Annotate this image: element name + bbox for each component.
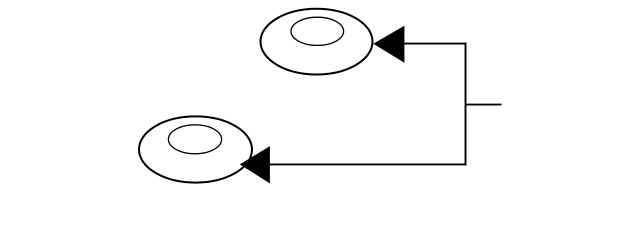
bracket vertical line — [465, 43, 467, 166]
washer 1 (top) inner ellipse — [291, 17, 344, 45]
leader line to washer 2 arrow (horizontal bottom) — [270, 163, 467, 165]
leader line from washer 1 arrow (horizontal) — [404, 43, 466, 45]
washer 2 (bottom) outer ellipse — [139, 116, 252, 182]
bracket stub line to callout (right) — [466, 104, 502, 106]
arrowhead pointing to washer 2 — [240, 146, 270, 183]
washer 2 (bottom) inner ellipse — [168, 125, 221, 154]
washer 1 (top) outer ellipse — [261, 9, 373, 75]
arrowhead pointing to washer 1 — [373, 26, 404, 63]
